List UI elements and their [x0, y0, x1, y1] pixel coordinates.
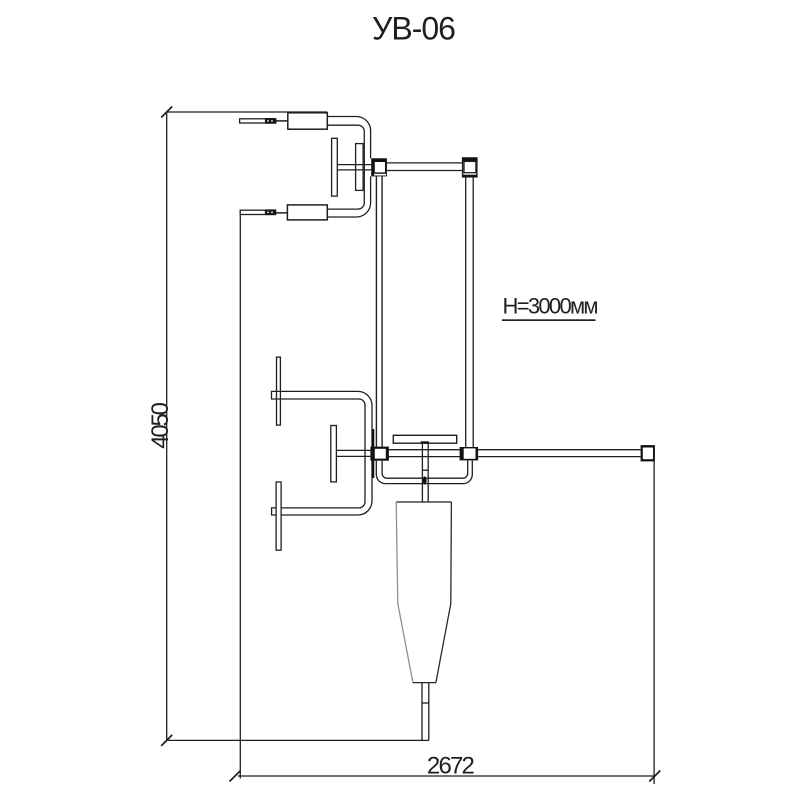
dipole D1 tip rod: [240, 119, 276, 123]
middle center plate bar: [331, 426, 337, 482]
middle lower-left element vertical bar: [276, 482, 281, 550]
clamp bolt bar: [372, 429, 374, 478]
label underline: [502, 319, 596, 321]
funnel body: [396, 501, 451, 503]
dipole D2 coupling block: [265, 209, 276, 215]
right support pole: [465, 177, 467, 447]
dimension extension line top: [166, 111, 327, 113]
lower right bracket square: [641, 445, 655, 461]
dipole D2 tip rod: [240, 210, 276, 214]
svg-text:УВ-06: УВ-06: [372, 11, 455, 47]
dipole D2 connector line: [275, 212, 288, 214]
tick left of bottom dim: [230, 771, 241, 782]
svg-text:2672: 2672: [427, 753, 475, 780]
mast clamp top: [371, 158, 387, 176]
dimension line left vertical 4050: [166, 112, 168, 741]
right vertical drop line: [653, 461, 655, 784]
feed tube bead: [423, 476, 427, 484]
reflector plate: [393, 435, 456, 443]
dimension line bottom 2672: [238, 775, 655, 777]
dimension extension line bottom / frame bottom: [166, 739, 422, 741]
top right bracket square: [463, 158, 477, 177]
middle boom segment 2: [478, 449, 640, 451]
U feed loop outer wall: [376, 460, 472, 483]
feed tube joint line: [422, 469, 428, 471]
tick bottom-left of vertical dim: [161, 735, 172, 746]
svg-text:4050: 4050: [147, 402, 174, 448]
dipole D1 connector line: [275, 120, 288, 122]
dipole D1 coupling block: [265, 118, 277, 124]
dipole D1 sleeve: [288, 113, 328, 129]
mast clamp middle-left: [370, 447, 389, 461]
feed tube vertical: [421, 443, 423, 502]
stem joint line: [422, 702, 429, 704]
top bracket plate P2: [356, 144, 364, 191]
U feed loop inner wall: [382, 460, 468, 478]
middle upper-left arm tube with bend down: [272, 391, 373, 515]
svg-text:H=3000мм: H=3000мм: [503, 294, 598, 319]
upper dipole D2 tube inner wall: [327, 125, 364, 209]
funnel stem: [421, 683, 423, 741]
feed tube top tick: [421, 441, 429, 443]
funnel bottom edge: [413, 682, 436, 684]
dipole D2 sleeve: [287, 205, 327, 220]
tick right of bottom dim: [649, 771, 660, 782]
top cross arm: [337, 164, 371, 166]
middle boom segment 1: [389, 449, 460, 451]
upper dipole D1 tube with bend: [327, 117, 370, 218]
middle cross arm: [336, 449, 370, 451]
middle upper-left element vertical bar: [277, 357, 281, 425]
top bracket plate P1: [332, 138, 338, 196]
mast clamp middle-right: [460, 447, 479, 460]
top boom to right: [387, 162, 463, 164]
frame left vertical: [239, 214, 241, 779]
mast H=3000: [375, 176, 377, 446]
stem bottom cap: [422, 739, 429, 741]
tick top-left: [161, 107, 172, 118]
